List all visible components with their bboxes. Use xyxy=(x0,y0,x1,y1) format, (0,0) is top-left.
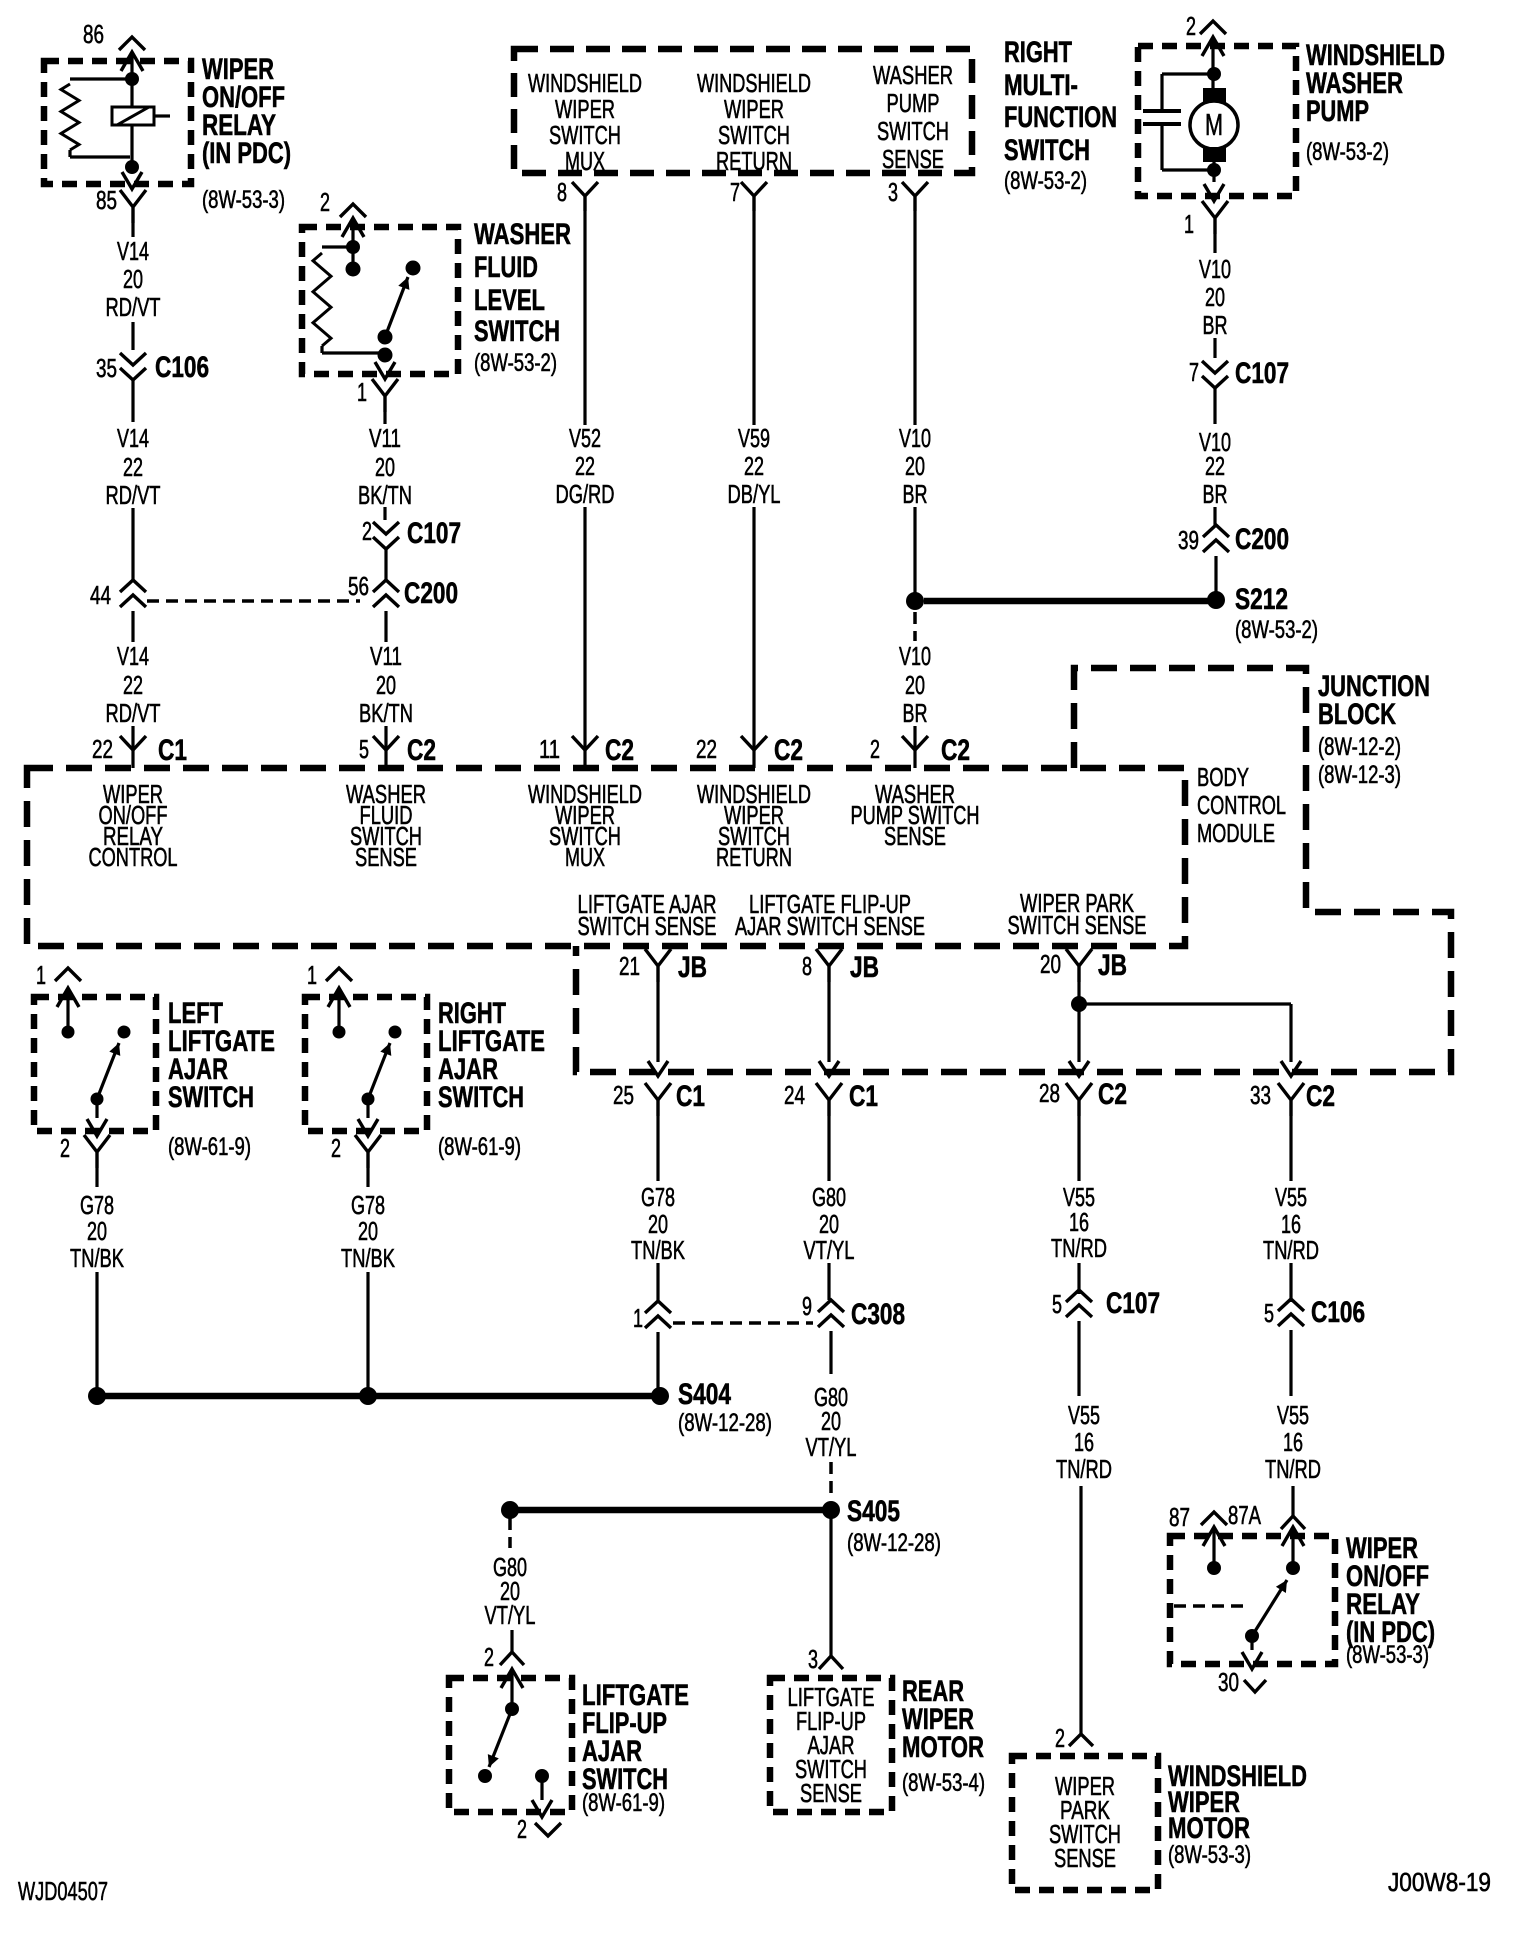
svg-text:V55: V55 xyxy=(1068,1400,1100,1430)
svg-text:39: 39 xyxy=(1178,525,1199,555)
wire V14 upper segment xyxy=(131,223,134,237)
wire V59 upper xyxy=(752,211,755,425)
svg-text:J00W8-19: J00W8-19 xyxy=(1388,1867,1491,1897)
connector rear wiper pin 3 chevron xyxy=(819,1656,843,1669)
wire V10 into BCM xyxy=(913,726,916,768)
wire V10 pump stub xyxy=(1213,234,1216,253)
svg-text:(8W-53-3): (8W-53-3) xyxy=(1346,1641,1429,1669)
rear wiper motor dashed box xyxy=(770,1678,892,1812)
svg-text:DB/YL: DB/YL xyxy=(728,479,781,509)
svg-text:RD/VT: RD/VT xyxy=(106,480,161,510)
svg-text:M: M xyxy=(1205,107,1223,142)
svg-text:22: 22 xyxy=(1205,451,1225,481)
svg-text:(8W-53-3): (8W-53-3) xyxy=(1168,1841,1251,1869)
svg-text:(8W-53-2): (8W-53-2) xyxy=(1306,138,1389,166)
wire G80 column below C1 xyxy=(827,1116,830,1181)
svg-text:20: 20 xyxy=(905,451,925,481)
node pump top junction xyxy=(1207,67,1221,81)
svg-text:21: 21 xyxy=(619,951,640,981)
svg-text:V52: V52 xyxy=(569,423,601,453)
wire relay coil stub xyxy=(154,114,170,117)
wire V11 stub xyxy=(383,412,386,424)
svg-text:V11: V11 xyxy=(370,641,402,671)
svg-text:C1: C1 xyxy=(849,1080,878,1113)
svg-text:VT/YL: VT/YL xyxy=(485,1600,536,1630)
right liftgate pin 2 exit arrow xyxy=(358,1119,378,1136)
connector wiper park pin 2 chevron xyxy=(1069,1734,1093,1746)
wire V55 branch to C106-5 xyxy=(1289,1263,1292,1302)
svg-text:S212: S212 xyxy=(1235,583,1288,616)
wire G80 below C308 xyxy=(829,1331,832,1374)
wire relay pin 30 shaft xyxy=(1250,1636,1253,1650)
wire V55 column below C2-28 xyxy=(1077,1116,1080,1181)
svg-text:85: 85 xyxy=(96,185,117,215)
wire left liftgate to pin 2 xyxy=(95,1099,98,1118)
svg-text:V14: V14 xyxy=(117,423,149,453)
wire V11 below C200 xyxy=(384,611,387,642)
node fluid switch junction A xyxy=(346,240,360,254)
svg-text:C2: C2 xyxy=(774,734,803,767)
relay pin 30 chevron xyxy=(1244,1680,1266,1692)
svg-text:2: 2 xyxy=(1186,11,1196,41)
wire V14 below pin 44 xyxy=(131,611,134,642)
svg-text:FUNCTION: FUNCTION xyxy=(1004,101,1117,134)
relay pin 87 chevron xyxy=(1201,1512,1227,1525)
svg-text:1: 1 xyxy=(633,1303,643,1333)
svg-text:3: 3 xyxy=(888,177,898,207)
node fluid switch pivot B xyxy=(378,348,393,363)
svg-text:5: 5 xyxy=(1264,1298,1274,1328)
svg-text:28: 28 xyxy=(1039,1078,1060,1108)
svg-text:2: 2 xyxy=(362,516,372,546)
relay pin 87 entry arrow xyxy=(1203,1527,1225,1546)
svg-text:20: 20 xyxy=(376,670,396,700)
wire G78 column below C1 xyxy=(656,1116,659,1181)
svg-text:C107: C107 xyxy=(1106,1287,1160,1320)
wire splice S405 bus xyxy=(510,1507,831,1514)
svg-text:BR: BR xyxy=(1203,310,1228,340)
relay pin 85 exit arrow xyxy=(122,172,142,189)
wire G80 to flip-up switch xyxy=(510,1630,513,1652)
wire V14 below C106 xyxy=(131,379,134,422)
svg-text:30: 30 xyxy=(1218,1667,1239,1697)
connector Y pump pin 1 xyxy=(1202,201,1228,234)
wire flip-up to pin 2 bottom xyxy=(540,1776,543,1800)
relay coil K1 xyxy=(112,107,154,125)
wiper park switch sense dashed box xyxy=(1012,1756,1158,1890)
wire V55 to relay pin 87A xyxy=(1291,1486,1294,1516)
svg-text:RETURN: RETURN xyxy=(716,146,792,176)
wire G80 through junction block xyxy=(827,982,830,1062)
svg-text:(8W-12-28): (8W-12-28) xyxy=(847,1529,941,1557)
left liftgate ajar switch dashed box xyxy=(34,997,156,1131)
svg-text:1: 1 xyxy=(357,377,367,407)
svg-text:CONTROL: CONTROL xyxy=(89,842,178,872)
left liftgate pin shaft xyxy=(66,988,69,1032)
svg-text:SENSE: SENSE xyxy=(800,1778,862,1808)
wire pump shaft top xyxy=(1211,37,1214,90)
svg-text:(8W-12-28): (8W-12-28) xyxy=(678,1409,772,1437)
svg-text:VT/YL: VT/YL xyxy=(804,1235,855,1265)
svg-text:(8W-61-9): (8W-61-9) xyxy=(582,1789,665,1817)
wire V14 to C200 pin 44 xyxy=(131,508,134,582)
svg-text:C106: C106 xyxy=(155,351,209,384)
connector Y pin 85 xyxy=(120,190,146,223)
svg-text:TN/BK: TN/BK xyxy=(631,1235,685,1265)
node splice S405 xyxy=(822,1501,840,1519)
svg-text:TN/BK: TN/BK xyxy=(70,1243,124,1273)
switch blade fluid level xyxy=(385,277,408,337)
pump pin 2 entry arrow xyxy=(1202,37,1224,56)
arrow G78 JB exit xyxy=(648,1061,668,1076)
svg-text:TN/RD: TN/RD xyxy=(1056,1454,1112,1484)
svg-text:22: 22 xyxy=(92,734,113,764)
switch blade relay 30-87A xyxy=(1252,1580,1287,1636)
svg-text:PUMP: PUMP xyxy=(1306,95,1369,128)
node relay top junction xyxy=(125,72,139,86)
svg-text:C200: C200 xyxy=(404,577,458,610)
wire V55 to wiper park switch xyxy=(1079,1486,1082,1734)
svg-text:11: 11 xyxy=(539,734,560,764)
relay pin 86 chevron xyxy=(119,37,145,50)
svg-text:5: 5 xyxy=(1052,1289,1062,1319)
resistor relay coil-suppression xyxy=(70,77,132,80)
wiper on/off relay PDC dashed box xyxy=(1170,1536,1335,1664)
svg-text:SWITCH: SWITCH xyxy=(474,315,560,348)
svg-text:2: 2 xyxy=(1055,1723,1065,1753)
svg-text:1: 1 xyxy=(36,960,46,990)
motor M washer pump xyxy=(1203,88,1226,103)
node S405 left tap xyxy=(501,1501,519,1519)
svg-text:WASHER: WASHER xyxy=(474,218,571,251)
svg-text:20: 20 xyxy=(1205,282,1225,312)
node flip-up pivot xyxy=(478,1769,492,1783)
svg-text:7: 7 xyxy=(730,177,740,207)
wire V55 to C107-5 xyxy=(1077,1263,1080,1294)
svg-text:20: 20 xyxy=(358,1216,378,1246)
svg-text:35: 35 xyxy=(96,353,117,383)
node pump bottom junction xyxy=(1207,163,1221,177)
svg-text:8: 8 xyxy=(557,177,567,207)
arrow V55 JB exit A xyxy=(1069,1061,1089,1076)
svg-text:TN/RD: TN/RD xyxy=(1051,1233,1107,1263)
node S212 tap on V10 xyxy=(906,592,924,610)
svg-text:SWITCH: SWITCH xyxy=(168,1081,254,1114)
svg-text:SWITCH SENSE: SWITCH SENSE xyxy=(1008,910,1147,940)
svg-text:SENSE: SENSE xyxy=(355,842,417,872)
svg-text:87: 87 xyxy=(1169,1502,1190,1532)
svg-text:V14: V14 xyxy=(117,641,149,671)
svg-text:2: 2 xyxy=(331,1133,341,1163)
relay pin 30 exit arrow xyxy=(1242,1652,1262,1669)
liftgate flip-up ajar switch dashed box xyxy=(449,1678,572,1812)
wire G78 left stub xyxy=(95,1168,98,1187)
svg-text:BR: BR xyxy=(1203,479,1228,509)
wire V10 to C200 pin 39 xyxy=(1213,507,1216,527)
node right liftgate common xyxy=(333,1026,346,1039)
svg-text:V55: V55 xyxy=(1277,1400,1309,1430)
wire V55 below C107 xyxy=(1077,1321,1080,1396)
svg-text:BLOCK: BLOCK xyxy=(1318,698,1396,731)
washer fluid level switch dashed box xyxy=(302,227,458,374)
svg-text:22: 22 xyxy=(123,670,143,700)
pump pin 2 chevron xyxy=(1200,21,1226,34)
wiper on/off relay K (in PDC) dashed box xyxy=(44,61,191,184)
svg-text:MOTOR: MOTOR xyxy=(902,1731,984,1764)
svg-text:VT/YL: VT/YL xyxy=(806,1432,857,1462)
wire V10 below C107 xyxy=(1213,387,1216,424)
svg-text:87A: 87A xyxy=(1228,1500,1261,1530)
svg-text:C2: C2 xyxy=(941,734,970,767)
svg-text:C308: C308 xyxy=(851,1298,905,1331)
svg-text:S405: S405 xyxy=(847,1495,900,1528)
svg-text:1: 1 xyxy=(307,960,317,990)
connector Y fluid pin 1 xyxy=(372,379,398,412)
svg-text:WASHER: WASHER xyxy=(873,60,953,90)
wire relay shaft lower xyxy=(130,125,133,170)
svg-text:BR: BR xyxy=(903,698,928,728)
node left liftgate contact xyxy=(118,1026,131,1039)
svg-text:20: 20 xyxy=(87,1216,107,1246)
wire G78 right to S404 xyxy=(366,1272,369,1390)
switch blade right liftgate xyxy=(368,1043,390,1099)
svg-text:C2: C2 xyxy=(605,734,634,767)
svg-text:RETURN: RETURN xyxy=(716,842,792,872)
svg-text:20: 20 xyxy=(375,452,395,482)
node wiper park sense split xyxy=(1071,996,1087,1012)
svg-text:SENSE: SENSE xyxy=(1054,1843,1116,1873)
svg-text:C106: C106 xyxy=(1311,1296,1365,1329)
connector flip-up pin 2 chevron xyxy=(500,1652,524,1665)
node fluid switch pivot A xyxy=(378,330,393,345)
wire wiper park sense branch xyxy=(1079,1002,1291,1005)
svg-text:86: 86 xyxy=(83,19,104,49)
svg-text:RIGHT: RIGHT xyxy=(1004,36,1072,69)
node S404 mid tap xyxy=(359,1387,377,1405)
svg-text:(8W-53-2): (8W-53-2) xyxy=(1004,167,1087,195)
svg-text:BR: BR xyxy=(903,479,928,509)
arrow V55 JB exit B xyxy=(1281,1061,1301,1076)
wire fluid switch to pin 1 xyxy=(383,355,386,362)
right liftgate pin 1 chevron xyxy=(326,968,352,981)
wire flip-up pin shaft xyxy=(510,1669,513,1709)
wire V52 upper xyxy=(583,211,586,425)
wire G78 to splice S404 xyxy=(656,1332,659,1390)
svg-text:8: 8 xyxy=(802,951,812,981)
wire dashed relay actuator link xyxy=(1174,1604,1246,1608)
svg-text:(8W-53-2): (8W-53-2) xyxy=(1235,616,1318,644)
connector Y right liftgate pin 2 xyxy=(355,1135,381,1168)
svg-text:9: 9 xyxy=(802,1291,812,1321)
relay pin 87A entry arrow xyxy=(1282,1527,1304,1546)
svg-text:BODY: BODY xyxy=(1197,762,1249,792)
wire V11 into BCM xyxy=(384,726,387,768)
svg-text:20: 20 xyxy=(1040,949,1061,979)
wire V11 C107-C200 xyxy=(384,548,387,582)
node right liftgate contact xyxy=(389,1026,402,1039)
wire dashed connector pairing C308 xyxy=(673,1321,813,1325)
svg-text:SWITCH: SWITCH xyxy=(1004,134,1090,167)
capacitor pump suppression xyxy=(1162,72,1214,75)
svg-text:RD/VT: RD/VT xyxy=(106,698,161,728)
svg-text:MODULE: MODULE xyxy=(1197,818,1275,848)
wire V11 to C107 xyxy=(383,507,386,520)
wire V55 through junction block xyxy=(1077,982,1080,1062)
svg-text:16: 16 xyxy=(1283,1427,1303,1457)
svg-text:20: 20 xyxy=(123,264,143,294)
svg-text:V59: V59 xyxy=(738,423,770,453)
svg-text:C2: C2 xyxy=(1306,1080,1335,1113)
svg-text:SENSE: SENSE xyxy=(884,821,946,851)
svg-text:JB: JB xyxy=(850,951,879,984)
wire G78 right stub xyxy=(366,1168,369,1187)
node S404 left tap xyxy=(88,1387,106,1405)
junction block outline xyxy=(576,668,1451,1072)
svg-text:24: 24 xyxy=(784,1080,805,1110)
windshield washer pump dashed box xyxy=(1138,46,1296,196)
wire G78 through junction block xyxy=(656,982,659,1062)
svg-text:G78: G78 xyxy=(641,1182,675,1212)
node fluid switch contact xyxy=(406,261,421,276)
wire pump shaft bottom xyxy=(1212,162,1215,172)
node relay bottom junction xyxy=(125,160,139,174)
node right liftgate pivot xyxy=(362,1093,375,1106)
svg-text:2: 2 xyxy=(870,734,880,764)
node fluid switch junction B xyxy=(346,262,361,277)
wire V55 branch below C106 xyxy=(1289,1330,1292,1396)
svg-text:DG/RD: DG/RD xyxy=(556,479,615,509)
connector Y left liftgate pin 2 xyxy=(84,1135,110,1168)
flip-up pin 2 exit arrow xyxy=(532,1800,552,1817)
switch pin 2 entry arrow xyxy=(342,218,364,237)
svg-text:22: 22 xyxy=(696,734,717,764)
svg-text:S404: S404 xyxy=(678,1378,731,1411)
svg-text:CONTROL: CONTROL xyxy=(1197,790,1286,820)
svg-text:(8W-12-3): (8W-12-3) xyxy=(1318,761,1401,789)
svg-text:RD/VT: RD/VT xyxy=(106,292,161,322)
node left liftgate pivot xyxy=(91,1093,104,1106)
svg-text:2: 2 xyxy=(60,1133,70,1163)
svg-text:(8W-61-9): (8W-61-9) xyxy=(168,1133,251,1161)
svg-text:JB: JB xyxy=(1098,949,1127,982)
pump pin 1 exit arrow xyxy=(1212,170,1215,182)
relay pin 86 entry arrow xyxy=(121,52,143,71)
resistor fluid level sender xyxy=(322,245,353,248)
wire V55 branch below C2-33 xyxy=(1289,1116,1292,1181)
wire splice S404 bus xyxy=(97,1393,660,1400)
svg-text:22: 22 xyxy=(744,451,764,481)
node relay 87A terminal xyxy=(1286,1561,1300,1575)
right liftgate pin 1 entry arrow xyxy=(328,988,350,1007)
switch blade flip-up xyxy=(489,1709,512,1767)
svg-text:7: 7 xyxy=(1189,357,1199,387)
wire switch pin2 shaft xyxy=(351,218,354,270)
svg-text:TN/BK: TN/BK xyxy=(341,1243,395,1273)
wire dashed C200 pairing link xyxy=(147,599,360,603)
node left liftgate common xyxy=(62,1026,75,1039)
svg-text:TN/RD: TN/RD xyxy=(1265,1454,1321,1484)
svg-text:MUX: MUX xyxy=(565,146,605,176)
svg-text:22: 22 xyxy=(123,452,143,482)
flip-up entry arrow xyxy=(501,1669,523,1688)
wire G78 left to S404 xyxy=(95,1272,98,1390)
wire G80 S405 to rear wiper motor xyxy=(829,1510,832,1656)
node flip-up right contact xyxy=(535,1769,549,1783)
svg-text:C200: C200 xyxy=(1235,523,1289,556)
left liftgate pin 1 entry arrow xyxy=(57,988,79,1007)
svg-text:SWITCH: SWITCH xyxy=(877,116,949,146)
wire V59 lower xyxy=(752,507,755,768)
svg-text:(8W-53-2): (8W-53-2) xyxy=(474,349,557,377)
svg-text:MUX: MUX xyxy=(565,842,605,872)
svg-text:BK/TN: BK/TN xyxy=(358,480,412,510)
svg-text:BK/TN: BK/TN xyxy=(359,698,413,728)
wire splice S212 bus xyxy=(924,598,1208,605)
svg-text:SWITCH: SWITCH xyxy=(438,1081,524,1114)
svg-text:(8W-12-2): (8W-12-2) xyxy=(1318,733,1401,761)
wire G80 to C308 xyxy=(827,1263,830,1300)
svg-text:G80: G80 xyxy=(812,1182,846,1212)
svg-text:TN/RD: TN/RD xyxy=(1263,1235,1319,1265)
svg-text:V55: V55 xyxy=(1275,1182,1307,1212)
svg-text:C1: C1 xyxy=(158,734,187,767)
wire dashed V10 below node xyxy=(913,612,917,641)
svg-text:C107: C107 xyxy=(407,517,461,550)
svg-text:C1: C1 xyxy=(676,1080,705,1113)
svg-text:(IN PDC): (IN PDC) xyxy=(202,137,291,170)
svg-text:V10: V10 xyxy=(1199,254,1231,284)
wire V10 pump to C107 xyxy=(1213,338,1216,358)
svg-text:3: 3 xyxy=(808,1644,818,1674)
svg-text:V10: V10 xyxy=(899,423,931,453)
node relay blade pivot xyxy=(1245,1629,1259,1643)
wire V52 lower xyxy=(583,507,586,768)
wire V14 to C106 xyxy=(131,322,134,350)
wire V10 to S212 node xyxy=(913,507,916,594)
wire dashed G80 below S405 xyxy=(508,1518,512,1548)
svg-text:SENSE: SENSE xyxy=(882,144,944,174)
node flip-up top contact xyxy=(505,1702,519,1716)
wire V10 upper xyxy=(913,211,916,425)
arrow G80 JB exit xyxy=(819,1061,839,1076)
svg-text:(8W-53-3): (8W-53-3) xyxy=(202,186,285,214)
right multi-function switch dashed box xyxy=(514,49,972,173)
svg-text:C107: C107 xyxy=(1235,357,1289,390)
svg-text:25: 25 xyxy=(613,1080,634,1110)
svg-text:V14: V14 xyxy=(117,236,149,266)
switch pin 2 chevron xyxy=(340,204,366,217)
svg-text:C2: C2 xyxy=(1098,1078,1127,1111)
svg-text:2: 2 xyxy=(484,1642,494,1672)
svg-text:22: 22 xyxy=(575,451,595,481)
svg-text:AJAR SWITCH SENSE: AJAR SWITCH SENSE xyxy=(735,911,925,941)
svg-text:C2: C2 xyxy=(407,734,436,767)
svg-text:V11: V11 xyxy=(369,423,401,453)
svg-text:2: 2 xyxy=(517,1814,527,1844)
flip-up bottom chevron xyxy=(535,1823,561,1836)
svg-text:56: 56 xyxy=(348,571,369,601)
wire dashed G80 to S405 xyxy=(829,1462,833,1500)
svg-text:33: 33 xyxy=(1250,1080,1271,1110)
left liftgate pin 1 chevron xyxy=(55,968,81,981)
svg-text:PUMP: PUMP xyxy=(887,88,940,118)
switch blade left liftgate xyxy=(97,1043,119,1099)
svg-text:(8W-61-9): (8W-61-9) xyxy=(438,1133,521,1161)
switch pin 1 exit arrow xyxy=(375,362,395,379)
svg-text:20: 20 xyxy=(905,670,925,700)
wire right liftgate to pin 2 xyxy=(366,1099,369,1118)
svg-text:LEVEL: LEVEL xyxy=(474,284,545,317)
